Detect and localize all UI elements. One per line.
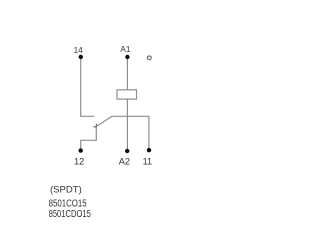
svg-text:12: 12 — [74, 157, 84, 167]
terminal dot 11 — [147, 148, 151, 152]
svg-text:11: 11 — [143, 157, 153, 167]
relay coil K1 — [117, 90, 137, 99]
unused terminal open circle — [147, 56, 151, 60]
wire: common arm horizontal to 11 lead — [112, 116, 149, 148]
svg-text:14: 14 — [74, 46, 84, 55]
switch arm: movable contact diagonal — [96, 116, 112, 126]
svg-text:8501CDO15: 8501CDO15 — [49, 209, 92, 220]
wire: A1 lead down to coil — [126, 59, 128, 90]
terminal dot A1 — [125, 55, 129, 59]
wire: terminal 14 lead down then right (NO fixed contact) — [81, 59, 95, 117]
wire: coil to A2 terminal — [126, 99, 128, 149]
wire: terminal 12 lead up to contact — [81, 127, 97, 150]
svg-text:8501CO15: 8501CO15 — [49, 199, 87, 210]
terminal dot 14 — [79, 55, 83, 59]
svg-text:A1: A1 — [120, 45, 130, 54]
svg-text:(SPDT): (SPDT) — [50, 184, 82, 195]
arrowhead at arm tip — [93, 124, 96, 127]
terminal dot A2 — [125, 149, 129, 153]
svg-text:A2: A2 — [119, 157, 130, 167]
terminal dot 12 — [79, 148, 83, 152]
